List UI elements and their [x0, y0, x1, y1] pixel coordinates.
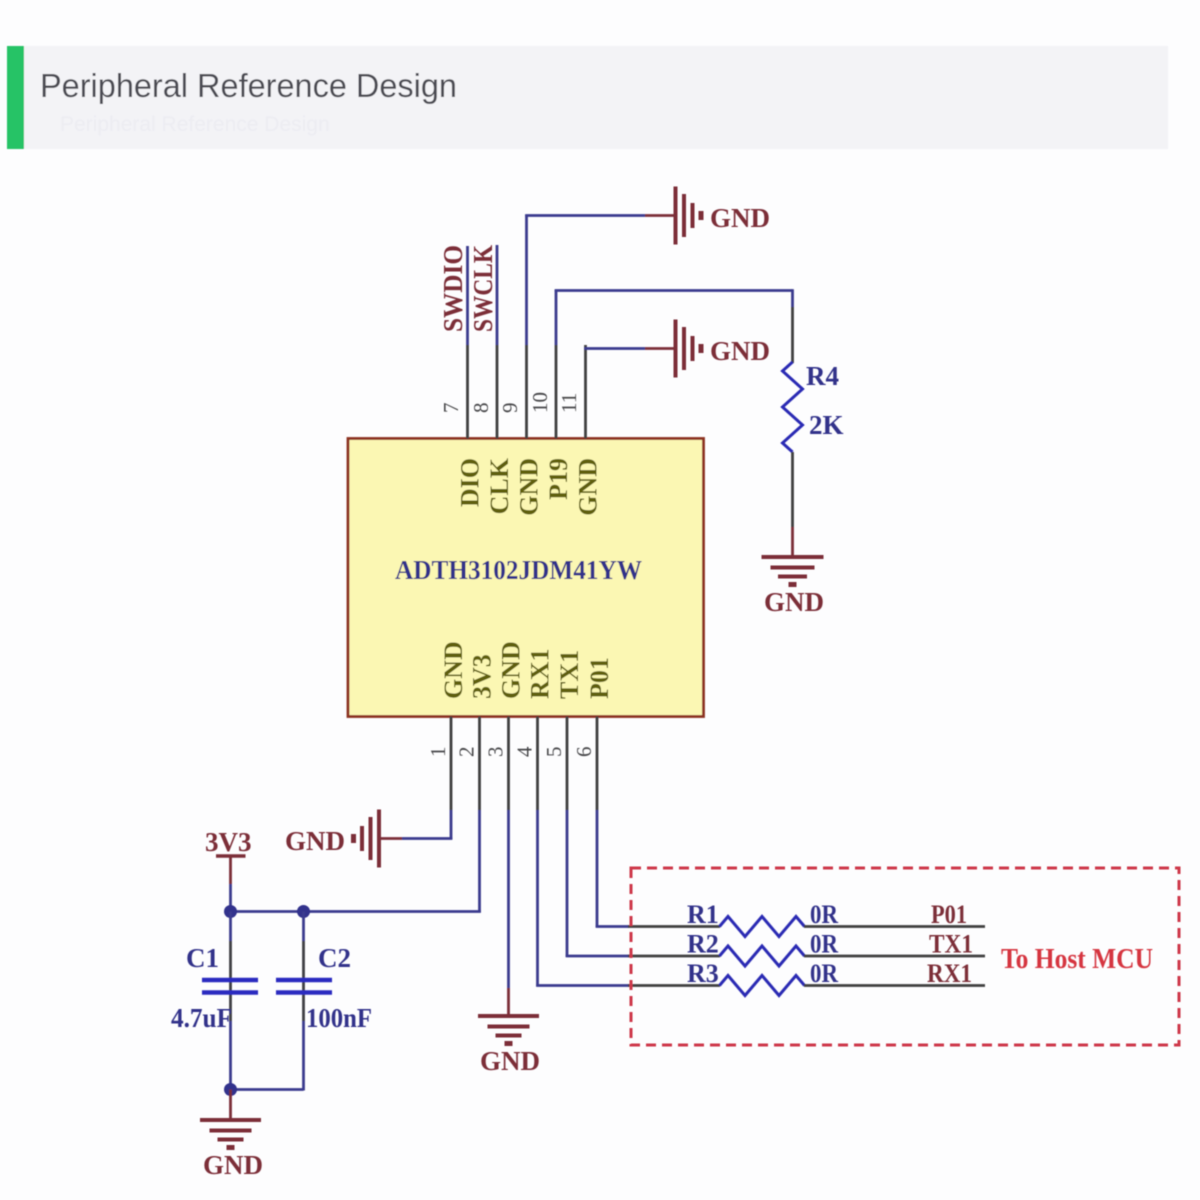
- wire pin 6 down: [596, 810, 599, 928]
- resistor R1 zigzag: [720, 917, 805, 937]
- svg-text:1: 1: [426, 747, 450, 758]
- R4 bottom lead: [791, 452, 794, 527]
- pin 9 stub: [525, 345, 528, 439]
- R3 left lead: [628, 984, 720, 987]
- junction dot C2 top: [297, 905, 310, 918]
- svg-text:To Host MCU: To Host MCU: [1001, 944, 1153, 975]
- wire pin 10 horizontal to R4: [555, 289, 793, 292]
- svg-text:P01: P01: [931, 900, 967, 929]
- svg-text:3V3: 3V3: [468, 654, 497, 699]
- svg-text:GND: GND: [480, 1046, 540, 1076]
- wire pin 9 vertical: [525, 215, 528, 346]
- svg-text:100nF: 100nF: [306, 1003, 372, 1033]
- capacitor C1: [202, 912, 258, 1090]
- ground symbol pin3 (down-pointing): [478, 1016, 539, 1044]
- junction dot 3V3/C1: [224, 905, 237, 918]
- wire pin 3 down: [507, 810, 510, 988]
- wire pin 1 down: [450, 810, 453, 840]
- wire pin 4 down: [536, 810, 539, 987]
- svg-text:GND: GND: [764, 587, 824, 617]
- svg-text:R2: R2: [687, 930, 719, 959]
- svg-text:4.7uF: 4.7uF: [171, 1003, 232, 1033]
- svg-text:2K: 2K: [809, 410, 844, 440]
- pin 11 stub: [584, 345, 587, 439]
- junction dot C1 bottom: [224, 1083, 237, 1096]
- dashed host-MCU box: [631, 868, 1179, 1045]
- wire 3V3 rail: [231, 910, 481, 913]
- R4 top lead: [791, 307, 794, 363]
- pin 4 stub: [536, 717, 539, 811]
- svg-text:P01: P01: [585, 657, 614, 699]
- svg-text:GND: GND: [515, 458, 544, 516]
- ground symbol GND2 (right-pointing): [676, 320, 702, 378]
- wire pin 2 down to 3V3 rail: [478, 810, 481, 913]
- wire SWDIO (pin 7 up): [466, 246, 469, 345]
- svg-text:RX1: RX1: [526, 648, 555, 699]
- svg-text:GND: GND: [710, 336, 770, 366]
- resistor R2 zigzag: [720, 946, 805, 966]
- resistor R4 zigzag: [783, 362, 803, 452]
- svg-text:SWDIO: SWDIO: [438, 245, 468, 332]
- wire C2 bottom to C1 bottom: [231, 1088, 304, 1091]
- svg-text:CLK: CLK: [485, 457, 514, 514]
- pin 7 stub: [466, 345, 469, 439]
- ground lead (C1 GND): [229, 1090, 232, 1121]
- wire pin 11 horizontal to GND: [584, 347, 645, 350]
- ground lead (R4 GND): [791, 527, 794, 557]
- wire pin 1 to ground: [402, 837, 452, 840]
- R1 left lead: [628, 925, 720, 928]
- svg-text:6: 6: [572, 747, 596, 758]
- header green accent bar: [7, 46, 24, 149]
- wire R4 top elbow: [791, 289, 794, 307]
- power symbol 3V3: [205, 827, 252, 884]
- svg-text:8: 8: [469, 403, 493, 414]
- svg-text:11: 11: [557, 393, 581, 413]
- svg-text:5: 5: [542, 747, 566, 758]
- svg-text:2: 2: [455, 747, 479, 758]
- ground lead (pin1 GND): [381, 837, 403, 840]
- svg-text:DIO: DIO: [456, 458, 485, 507]
- pin 5 stub: [566, 717, 569, 811]
- svg-text:RX1: RX1: [927, 959, 972, 988]
- svg-text:GND: GND: [203, 1150, 263, 1180]
- svg-text:GND: GND: [497, 641, 526, 699]
- ground lead (top GND 2): [645, 347, 674, 350]
- pin 6 stub: [596, 717, 599, 811]
- svg-text:TX1: TX1: [929, 930, 973, 959]
- svg-text:R3: R3: [687, 959, 719, 988]
- svg-text:R1: R1: [687, 900, 719, 929]
- svg-text:GND: GND: [285, 826, 345, 856]
- ground symbol C1 (down-pointing): [200, 1120, 261, 1148]
- svg-text:GND: GND: [710, 203, 770, 233]
- pin 10 stub: [555, 345, 558, 439]
- resistor R3 zigzag: [720, 976, 805, 996]
- svg-text:3V3: 3V3: [205, 827, 252, 857]
- svg-text:Peripheral Reference Design: Peripheral Reference Design: [40, 68, 457, 105]
- svg-text:9: 9: [498, 403, 522, 414]
- R2 left lead: [628, 955, 720, 958]
- wire pin 9 horizontal to GND: [525, 214, 645, 217]
- wire pin 5 down: [566, 810, 569, 957]
- svg-text:4: 4: [513, 746, 537, 757]
- svg-text:GND: GND: [439, 641, 468, 699]
- svg-text:3: 3: [484, 747, 508, 758]
- ground symbol R4 (down-pointing): [762, 557, 824, 585]
- wire row2 left: [566, 955, 629, 958]
- wire 3V3 down: [229, 884, 232, 912]
- svg-text:C2: C2: [318, 943, 351, 973]
- R2 right lead: [804, 955, 985, 958]
- svg-text:TX1: TX1: [555, 650, 584, 699]
- IC U1 body ADTH3102JDM41YW: [348, 439, 704, 717]
- capacitor C2: [276, 912, 332, 1091]
- ground symbol GND1 (right-pointing): [676, 187, 702, 245]
- wire row1 left: [596, 925, 629, 928]
- ground lead (pin3 GND): [507, 988, 510, 1016]
- svg-text:GND: GND: [574, 458, 603, 516]
- svg-text:ADTH3102JDM41YW: ADTH3102JDM41YW: [395, 555, 642, 585]
- wire pin 10 vertical: [555, 290, 558, 346]
- ground lead (top GND 1): [645, 214, 674, 217]
- R3 right lead: [804, 984, 985, 987]
- pin 3 stub: [507, 717, 510, 811]
- svg-text:C1: C1: [186, 943, 219, 973]
- svg-text:0R: 0R: [810, 959, 838, 988]
- svg-text:0R: 0R: [810, 930, 838, 959]
- pin 2 stub: [478, 717, 481, 811]
- wire SWCLK (pin 8 up): [496, 245, 499, 345]
- svg-text:Peripheral Reference Design: Peripheral Reference Design: [60, 113, 330, 136]
- svg-text:7: 7: [439, 403, 463, 414]
- svg-text:SWCLK: SWCLK: [468, 245, 498, 332]
- svg-text:10: 10: [528, 392, 552, 413]
- R1 right lead: [804, 925, 985, 928]
- wire row3 left: [536, 984, 629, 987]
- pin 1 stub: [450, 717, 453, 811]
- pin 8 stub: [496, 345, 499, 439]
- svg-text:R4: R4: [806, 361, 839, 391]
- header background bar: [24, 46, 1168, 149]
- svg-text:P19: P19: [544, 458, 573, 500]
- svg-text:0R: 0R: [810, 900, 838, 929]
- ground symbol pin1 (left-pointing): [354, 810, 380, 868]
